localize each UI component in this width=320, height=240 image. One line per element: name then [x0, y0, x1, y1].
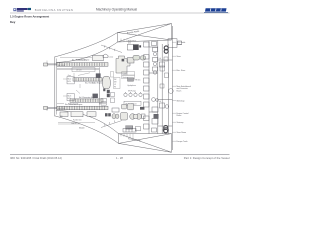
- svg-text:Room: Room: [177, 44, 182, 46]
- engine no.3 alternator block: [93, 94, 98, 98]
- striped heat exchanger top: [128, 78, 134, 82]
- dark pair blocks: [103, 89, 110, 98]
- svg-text:Coolers: Coolers: [123, 73, 129, 75]
- svg-text:Elec. Store: Elec. Store: [177, 69, 186, 72]
- footer rule: [10, 154, 230, 156]
- text plate A: [122, 72, 135, 79]
- void tank top (hatched): [118, 24, 172, 43]
- svg-text:Store Room: Store Room: [177, 131, 187, 134]
- generator engine no.1 (top long unit): [44, 55, 109, 66]
- deck lines below engine4: [58, 122, 95, 124]
- svg-text:Stairway: Stairway: [177, 121, 184, 124]
- generator engine no.2 (upper centre band): [73, 78, 102, 81]
- stair run bottom: [101, 120, 122, 127]
- engine no.1 pipes below: [57, 68, 99, 69]
- svg-text:Store: Store: [177, 55, 181, 58]
- svg-text:BARCELONA KNUTSEN: BARCELONA KNUTSEN: [35, 8, 74, 12]
- svg-text:Workshop: Workshop: [177, 100, 185, 102]
- exhaust boundary line: [99, 67, 101, 105]
- svg-text:Turbocharger: Turbocharger: [68, 103, 79, 106]
- svg-text:Crane: Crane: [109, 57, 113, 59]
- void tank bottom (hatched): [119, 134, 172, 153]
- casing extra boxes: [152, 42, 165, 133]
- misc text smudges in diagram: [58, 58, 87, 129]
- CO2 room box top right: [168, 39, 182, 48]
- svg-text:1 - 28: 1 - 28: [116, 156, 123, 160]
- header: DSME logo: [204, 8, 228, 13]
- svg-text:No.4 D/G: No.4 D/G: [58, 108, 66, 110]
- right margin callout labels: [177, 41, 191, 143]
- aft bulkhead vertical: [54, 57, 56, 117]
- callout leader ticks: [172, 42, 176, 141]
- label leader lines: [47, 61, 67, 112]
- svg-text:WS: WS: [60, 116, 63, 118]
- silencer blob: [102, 76, 110, 89]
- header: Knutsen logo: [13, 8, 31, 12]
- engine no.2 piping: [74, 73, 90, 76]
- svg-text:Lub Oil: Lub Oil: [71, 123, 77, 125]
- svg-text:SW Pumps: SW Pumps: [128, 91, 136, 93]
- deck line above engine1: [60, 57, 92, 59]
- engine no.4 pipes above: [57, 102, 106, 104]
- purifier cluster top right of engines: [103, 44, 146, 73]
- casing bulkhead verticals: [148, 41, 150, 134]
- hull tank top line top: [56, 42, 118, 63]
- svg-text:No.1 D/G: No.1 D/G: [58, 65, 66, 67]
- svg-text:Key: Key: [10, 20, 16, 24]
- stair run top: [101, 45, 122, 53]
- extra tiny texts: [60, 57, 161, 118]
- svg-text:Escape Trunk: Escape Trunk: [177, 141, 188, 143]
- svg-text:Hydrophore: Hydrophore: [128, 85, 136, 87]
- casing small fittings: [160, 57, 169, 88]
- svg-text:Gen: Gen: [68, 75, 71, 77]
- svg-text:1.5 Engine Room Arrangement: 1.5 Engine Room Arrangement: [10, 15, 49, 19]
- svg-text:Module: Module: [79, 128, 85, 130]
- hull tank top line bottom: [56, 110, 119, 133]
- casing division horizontals: [149, 46, 158, 48]
- header rule: [10, 12, 230, 14]
- svg-text:Boiler Feed: Boiler Feed: [128, 40, 136, 42]
- engine no.2 label box: [67, 77, 74, 84]
- svg-text:Room: Room: [177, 90, 182, 92]
- pump circle row: [124, 92, 142, 97]
- workshop cluster bottom: [112, 104, 145, 120]
- engine no.2 alternator block: [96, 73, 101, 77]
- svg-text:FW Gen: FW Gen: [135, 80, 141, 82]
- dark striped block bottom right: [140, 107, 144, 110]
- engine no.3 piping: [76, 84, 80, 94]
- escape ladder bottom: [123, 129, 136, 133]
- long plate: [124, 101, 141, 105]
- svg-text:No.3 Generator Engine: No.3 Generator Engine: [79, 96, 96, 99]
- aux text list block: [111, 72, 121, 89]
- svg-text:Machinery Operating Manual: Machinery Operating Manual: [96, 8, 137, 12]
- hull deck edge bottom: [55, 116, 119, 144]
- pump column mid: [144, 42, 150, 129]
- generator engine no.4 (bottom long unit): [44, 106, 109, 117]
- svg-text:Exh: Exh: [92, 83, 95, 85]
- svg-text:Turbocharger: Turbocharger: [76, 58, 87, 61]
- exhaust silencer rings top: [164, 46, 168, 53]
- svg-text:Part 1: Design Concept of the: Part 1: Design Concept of the Vessel: [184, 156, 230, 160]
- engine no.3 label box: [67, 93, 74, 100]
- small boxes left: [111, 93, 115, 103]
- hatch ticks in void boxes: [121, 39, 133, 139]
- striped heat exchanger bottom: [126, 126, 141, 131]
- funnel circles: [163, 89, 173, 133]
- svg-text:Room: Room: [177, 115, 182, 117]
- exhaust pipe valve run top: [153, 48, 158, 75]
- hull deck edge top: [55, 33, 118, 58]
- exhaust silencer rings bottom: [164, 126, 168, 133]
- svg-text:IMO No: 9401295 / Final Draft: IMO No: 9401295 / Final Draft (2010.05.1…: [10, 156, 62, 160]
- exhaust pipe valve run bottom: [152, 98, 159, 124]
- generator engine no.3 (lower centre band): [70, 99, 103, 102]
